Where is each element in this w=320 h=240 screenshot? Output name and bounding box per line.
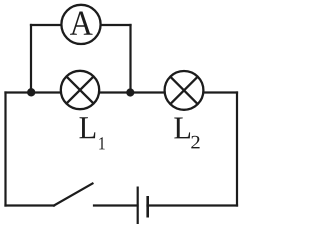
wire ammeter branch vertical left: [30, 25, 32, 93]
lamp L1: [61, 71, 99, 109]
switch S1 lever: [54, 184, 93, 206]
wire battery to bottom right corner: [148, 204, 238, 206]
node junction dot left: [27, 88, 35, 96]
lamp L1 label subscript 1: [99, 137, 104, 149]
wire right vertical: [236, 93, 238, 206]
lamp L1 label letter L: [80, 117, 96, 138]
wire bottom left to switch pivot: [6, 204, 55, 206]
lamp L2 label subscript 2: [191, 136, 199, 149]
wire ammeter branch vertical right: [129, 25, 131, 93]
wire between lamps: [100, 91, 164, 93]
wire left vertical: [4, 93, 6, 206]
wire switch contact to battery: [94, 204, 138, 206]
wire ammeter branch horizontal left: [31, 24, 61, 26]
wire lamp L2 to right corner: [205, 91, 238, 93]
ammeter U1 label A: [70, 11, 93, 34]
node junction dot right: [126, 88, 134, 96]
wire ammeter branch horizontal right: [102, 24, 131, 26]
ammeter U1 circle: [61, 5, 100, 44]
battery B1 long plate: [137, 187, 139, 225]
battery B1 short plate: [146, 196, 149, 218]
wire top horizontal left segment: [6, 91, 61, 93]
lamp L2: [165, 71, 204, 110]
lamp L2 label letter L: [174, 118, 190, 139]
